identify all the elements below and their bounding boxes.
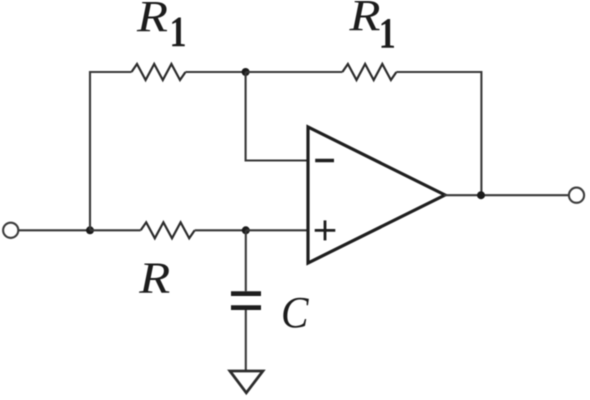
resistor R1 (top-left) (132, 64, 186, 80)
wire: node B to R1 right (246, 71, 343, 73)
wire: capacitor to ground (245, 310, 247, 371)
svg-text:1: 1 (379, 11, 396, 58)
svg-text:R: R (136, 0, 168, 41)
op-amp U1 (308, 127, 445, 263)
ground (230, 371, 263, 393)
node C (output junction dot) (477, 191, 485, 199)
capacitor C (top plate) (231, 291, 261, 296)
wire: R1 right to right riser corner (396, 71, 481, 73)
svg-text:C: C (281, 288, 309, 337)
wire: node A to resistor R (90, 229, 141, 231)
wire: op-amp output to node C (444, 194, 569, 196)
wire: node D to non-inverting input (246, 229, 309, 231)
op-amp minus pin label (315, 159, 334, 163)
node A (junction dot on input line) (86, 226, 94, 234)
op-amp plus pin label (315, 229, 336, 232)
wire: R1 to node B (186, 71, 246, 73)
svg-text:R: R (138, 254, 170, 303)
wire: node D down to capacitor (245, 230, 247, 291)
wire: right vertical riser down to output node (480, 71, 482, 195)
wire: R to node D (195, 229, 246, 231)
wire: left vertical riser (90, 72, 132, 230)
wire: node B down to inverting input (246, 72, 309, 161)
input terminal (left circle) (3, 223, 18, 238)
output terminal (right circle) (569, 188, 584, 203)
capacitor C (bottom plate) (231, 305, 261, 310)
svg-text:R: R (348, 0, 380, 40)
wire: input to node A (19, 229, 90, 231)
node B (top junction dot) (242, 68, 250, 76)
resistor R1 (top-right) (342, 64, 396, 80)
resistor R (middle) (141, 222, 195, 238)
svg-text:1: 1 (170, 9, 187, 56)
node D (junction dot at + input line) (242, 226, 250, 234)
